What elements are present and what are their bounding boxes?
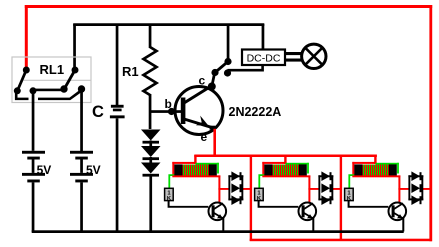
svg-text:b: b — [165, 97, 172, 111]
transformer T1 core left — [174, 164, 182, 175]
wire base L block1 — [168, 201, 209, 208]
node relay S2 common — [72, 67, 79, 74]
capacitor C plate2 — [113, 109, 122, 112]
wire red supply top rail — [25, 5, 432, 8]
wire red collector riser 1 — [218, 175, 220, 202]
switch relay blade 1 — [18, 70, 27, 91]
transistor Q block2 — [299, 203, 317, 221]
transistor Q1 base bar — [181, 98, 186, 125]
node relay S1 throw — [14, 87, 21, 94]
svg-text:C: C — [92, 103, 104, 121]
diode D1 bar — [143, 141, 160, 144]
wire battery1 top — [32, 91, 35, 151]
wire emitter down block1 — [222, 218, 224, 232]
wire red T3 left edge — [352, 162, 354, 175]
wire switch C to DC-DC — [228, 65, 264, 72]
wire red drop T3 — [374, 155, 376, 164]
node relay D1 — [30, 87, 37, 94]
transistor Q1 2N2222A circle — [175, 87, 223, 135]
wire base L block3 — [348, 201, 389, 208]
wire red right border — [429, 5, 432, 241]
relay inner line — [24, 79, 92, 81]
wire red T3 top arm — [352, 162, 376, 164]
wire base L block2 — [258, 201, 299, 208]
diode D1 — [141, 130, 161, 141]
svg-text:RL1: RL1 — [40, 62, 65, 77]
wire switch feed — [227, 24, 230, 62]
node relay S1 common — [23, 67, 30, 74]
wire red T2 top arm — [262, 162, 286, 164]
wire red collector riser 3 — [398, 175, 400, 202]
wire green T1 jog — [168, 174, 174, 188]
node collector dot — [208, 83, 216, 91]
transistor Q1 emitter arrow — [196, 116, 209, 126]
transformer T2 winding — [273, 164, 299, 175]
wire red drop T1 — [194, 155, 196, 164]
oscillator block 2 — [255, 155, 341, 232]
battery B2 cell1 long plate — [70, 151, 93, 154]
wire green T3 top right — [376, 163, 399, 165]
transformer T3 core right — [389, 164, 397, 175]
oscillator block 3 — [345, 155, 432, 232]
wire green T2 jog — [258, 174, 264, 188]
battery B2 cell2 short plate — [75, 180, 88, 183]
battery B2 cell2 long plate — [70, 173, 93, 176]
LED array block3 — [408, 171, 423, 205]
lamp connector bar1 — [285, 52, 303, 55]
LED array block2 — [318, 171, 333, 205]
wire green T2 right edge — [307, 163, 309, 174]
transformer T2 core right — [299, 164, 307, 175]
wire red riser block2-3 — [340, 155, 342, 241]
battery B1 cell2 long plate — [22, 173, 45, 176]
wire DC-DC top — [262, 24, 265, 51]
resistor 1K block1 — [165, 188, 174, 200]
svg-text:5V: 5V — [86, 163, 101, 177]
svg-text:2N2222A: 2N2222A — [229, 105, 282, 119]
wire emitter down block3 — [402, 218, 404, 232]
switch relay blade 2 — [65, 70, 76, 89]
diode D3 bar — [143, 174, 160, 177]
resistor 1K block2 — [255, 188, 264, 200]
wire diode chain bottom — [149, 174, 152, 232]
wire R1 bottom — [149, 94, 152, 129]
wire red emitter down — [213, 129, 216, 157]
wire red riser block1-2 — [250, 155, 252, 241]
node switch C — [224, 69, 231, 76]
capacitor C plate1 — [111, 105, 124, 108]
wire red T1 bottom — [172, 175, 220, 177]
relay RL1 box — [12, 57, 91, 103]
wire D2-D3 — [149, 157, 152, 163]
wire B2 mid — [80, 160, 83, 173]
wire red blocks top rail — [194, 155, 377, 158]
battery B1 cell1 short plate — [27, 157, 40, 160]
diode D2 — [141, 146, 161, 157]
wire battery2 top — [80, 89, 83, 151]
node base dot — [168, 108, 175, 115]
node relay blade2 end — [60, 85, 67, 92]
wire red drop to relay — [25, 5, 28, 68]
wire red drop T2 — [284, 155, 286, 164]
wire red LED feed 2 — [308, 188, 320, 190]
wire black top bus — [73, 23, 264, 26]
wire red T1 top arm — [172, 162, 196, 164]
wire B1 mid — [32, 160, 35, 173]
node relay E2 — [78, 85, 85, 92]
wire red bottom rail — [250, 239, 432, 242]
lamp connector bar2 — [285, 59, 303, 62]
switch blade collector — [215, 62, 228, 73]
wire red LED out 2 — [332, 188, 341, 190]
wire relay throw stub — [15, 91, 29, 100]
wire switch B to collector — [212, 74, 215, 86]
capacitor C plate3 — [110, 115, 125, 118]
transformer T2 core left — [264, 164, 272, 175]
svg-text:R1: R1 — [122, 64, 139, 79]
wire red T2 bottom — [262, 175, 310, 177]
wire green T1 right edge — [217, 163, 219, 174]
wire base to bar — [172, 110, 182, 113]
wire green T3 right edge — [397, 163, 399, 174]
LED array block1 — [228, 171, 243, 205]
wire R1 top — [149, 24, 152, 48]
wire black ground rail — [32, 230, 404, 233]
switch relay blade 3 — [38, 90, 82, 101]
resistor R1 — [144, 47, 157, 95]
wire B2 bottom — [80, 182, 83, 232]
transformer T1 winding — [183, 164, 209, 175]
wire red collector riser 2 — [308, 175, 310, 202]
converter DC-DC box — [242, 50, 285, 66]
svg-text:DC-DC: DC-DC — [247, 52, 281, 64]
wire red LED out 1 — [242, 188, 251, 190]
wire green T2 top right — [286, 163, 309, 165]
wire capacitor bottom — [116, 118, 119, 232]
lamp L1 — [302, 44, 326, 68]
node switch B — [211, 69, 218, 76]
wire B1 bottom — [32, 182, 35, 232]
wire green T3 jog — [348, 174, 354, 188]
transformer T3 core left — [354, 164, 362, 175]
transformer T3 winding — [363, 164, 389, 175]
transformer T1 core right — [209, 164, 217, 175]
diode D2 bar — [143, 157, 160, 160]
wire D1-D2 — [149, 141, 152, 147]
battery B1 cell2 short plate — [27, 180, 40, 183]
wire red LED out 3 — [422, 188, 432, 190]
svg-text:c: c — [199, 73, 206, 87]
transistor Q1 emitter line — [184, 119, 212, 128]
wire red T3 bottom — [352, 175, 400, 177]
diode D3 — [141, 163, 161, 174]
wire emitter down block2 — [312, 218, 314, 232]
transistor Q block1 — [209, 203, 227, 221]
wire relay S2 up — [73, 24, 76, 68]
oscillator block 1 — [165, 155, 251, 232]
wire red T2 left edge — [262, 162, 264, 175]
battery B1 cell1 long plate — [22, 151, 45, 154]
node emitter dot — [210, 126, 216, 130]
wire D1 to blade2 — [33, 89, 64, 92]
wire base branch — [150, 110, 169, 113]
battery B2 cell1 short plate — [75, 157, 88, 160]
transistor Q1 collector line — [184, 87, 211, 104]
wire red LED feed 3 — [398, 188, 410, 190]
node switch A — [224, 58, 231, 65]
transistor Q block3 — [389, 203, 407, 221]
wire red LED feed 1 — [218, 188, 230, 190]
wire red T1 left edge — [172, 162, 174, 175]
svg-text:5V: 5V — [37, 163, 52, 177]
svg-text:e: e — [201, 130, 208, 144]
wire capacitor top — [116, 24, 119, 106]
wire green T1 top right — [196, 163, 219, 165]
resistor 1K block3 — [345, 188, 354, 200]
